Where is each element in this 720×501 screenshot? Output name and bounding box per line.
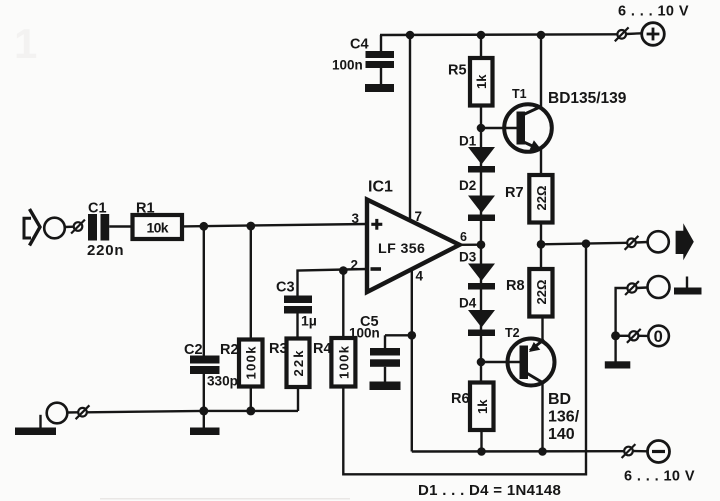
capacitor C5 100n	[349, 314, 412, 382]
capacitor C1 220n	[87, 201, 132, 260]
wire return connector stem	[616, 288, 628, 362]
svg-text:140: 140	[548, 426, 575, 443]
svg-text:100n: 100n	[349, 326, 380, 341]
node output R7/R8	[537, 240, 546, 249]
plug negative supply	[622, 444, 648, 458]
svg-text:1k: 1k	[474, 74, 489, 89]
transistor T1 BD135/139	[504, 87, 627, 152]
svg-text:R2: R2	[220, 342, 239, 358]
svg-text:D2: D2	[459, 178, 476, 193]
plug 0V	[616, 329, 649, 343]
svg-text:22k: 22k	[291, 350, 306, 377]
lower input connector circle	[47, 403, 68, 424]
resistor R6 1k	[451, 383, 494, 452]
plug return	[625, 281, 647, 295]
svg-text:C3: C3	[276, 280, 295, 296]
svg-text:R8: R8	[506, 278, 525, 294]
svg-text:0: 0	[654, 328, 663, 346]
plug lower input	[76, 405, 90, 419]
op-amp IC1 LF356	[351, 179, 468, 293]
svg-text:136/: 136/	[548, 409, 580, 426]
plug output	[625, 236, 648, 250]
svg-text:2: 2	[351, 258, 359, 273]
svg-text:6: 6	[460, 230, 467, 244]
svg-text:220n: 220n	[87, 242, 124, 259]
wire T1 base	[481, 127, 518, 129]
node T2 collector / rail	[538, 447, 547, 456]
wire input to op-amp	[182, 224, 367, 226]
svg-text:10k: 10k	[147, 220, 169, 236]
ground at return connector	[674, 277, 702, 295]
ground at 0V stem	[605, 361, 631, 368]
wire pin 2	[298, 269, 368, 296]
resistor R7 22ohm	[505, 175, 553, 244]
svg-text:C2: C2	[184, 342, 203, 358]
resistor R5 1k	[448, 35, 493, 128]
wire negative rail	[412, 450, 624, 453]
bottom scan smudge	[100, 498, 350, 500]
svg-text:22Ω: 22Ω	[534, 280, 549, 305]
svg-text:D3: D3	[459, 250, 477, 265]
svg-text:BD135/139: BD135/139	[548, 90, 627, 107]
svg-text:1µ: 1µ	[301, 313, 317, 329]
svg-text:R4: R4	[313, 341, 332, 357]
input connector circle	[44, 218, 65, 239]
node pin 6 output junction	[477, 240, 486, 249]
capacitor C2 330p	[184, 226, 238, 411]
node T2 base junction	[477, 358, 486, 367]
svg-text:R3: R3	[269, 341, 288, 357]
plug input	[71, 220, 85, 234]
input signal arrow symbol	[24, 209, 40, 246]
diode D4	[459, 296, 495, 337]
node pin7 / rail	[406, 31, 415, 40]
node C2 tap	[199, 222, 208, 231]
wire output	[541, 243, 627, 245]
svg-text:7: 7	[415, 209, 423, 224]
wire	[67, 411, 78, 414]
node C5 tap	[408, 331, 417, 340]
svg-text:100n: 100n	[332, 58, 363, 73]
resistor R3 22k	[269, 339, 310, 412]
negative supply terminal	[624, 441, 695, 485]
svg-text:6 . . . 10 V: 6 . . . 10 V	[624, 469, 695, 485]
resistor R1 10k	[133, 201, 183, 240]
resistor R8 22ohm	[506, 244, 553, 316]
svg-text:1k: 1k	[475, 399, 490, 414]
0V connector circle	[648, 326, 669, 347]
svg-text:T1: T1	[512, 87, 527, 101]
svg-text:100k: 100k	[336, 345, 351, 379]
svg-text:R6: R6	[451, 391, 470, 407]
svg-text:BD: BD	[548, 391, 571, 408]
svg-text:C1: C1	[88, 201, 107, 217]
wire T2 base	[481, 361, 521, 363]
output arrow symbol	[676, 223, 694, 260]
wire T2 collector	[541, 383, 543, 452]
svg-text:6 . . . 10 V: 6 . . . 10 V	[618, 4, 689, 20]
positive supply terminal	[618, 4, 689, 46]
svg-text:C4: C4	[350, 37, 369, 53]
ground at lower input	[15, 415, 56, 435]
svg-text:D1 . . . D4 = 1N4148: D1 . . . D4 = 1N4148	[418, 482, 561, 499]
svg-text:D1: D1	[459, 134, 477, 149]
wire T2 emitter	[541, 317, 543, 343]
wire ground bus	[87, 411, 298, 412]
node T1 collector / rail	[537, 31, 546, 40]
svg-text:22Ω: 22Ω	[534, 186, 549, 211]
svg-text:T2: T2	[505, 326, 520, 340]
ground at C2	[190, 411, 220, 435]
node C2 ground	[199, 406, 208, 415]
svg-text:LF 356: LF 356	[378, 241, 425, 257]
return connector circle	[648, 276, 670, 298]
wire positive supply rail	[380, 33, 617, 36]
svg-text:D4: D4	[459, 296, 477, 311]
svg-text:100k: 100k	[244, 346, 259, 380]
ground at C5	[370, 382, 401, 391]
plug positive supply	[615, 27, 642, 41]
svg-text:4: 4	[416, 269, 424, 284]
diode D1	[459, 134, 495, 173]
capacitor C3 1u	[276, 280, 317, 339]
svg-text:330p: 330p	[207, 374, 238, 389]
svg-text:3: 3	[352, 211, 360, 226]
wire T1 emitter	[540, 150, 542, 176]
capacitor C4	[332, 35, 394, 85]
wire pin 4	[411, 269, 413, 452]
resistor R4 100k	[313, 271, 355, 387]
svg-text:R1: R1	[136, 201, 155, 217]
node R6 / rail	[477, 447, 486, 456]
svg-text:IC1: IC1	[368, 179, 393, 196]
resistor R2 100k	[220, 226, 263, 411]
diode D3	[459, 250, 495, 290]
diode chain wire	[480, 128, 482, 383]
output connector circle	[648, 231, 669, 252]
wire pin 7 to rail	[409, 35, 411, 223]
wire T1 collector	[540, 35, 542, 108]
transistor T2 BD136/140	[505, 326, 580, 443]
node feedback tap	[582, 239, 591, 248]
wire	[65, 225, 74, 228]
svg-text:R5: R5	[448, 63, 467, 79]
svg-text:R7: R7	[505, 185, 524, 201]
svg-text:1: 1	[14, 20, 37, 67]
node pin 2 / R4	[339, 266, 348, 275]
ground at C4	[365, 84, 394, 92]
node R5 / rail	[477, 31, 486, 40]
node R2 ground	[246, 406, 255, 415]
wire pin 6	[459, 243, 481, 246]
diode D2	[459, 178, 495, 221]
wire feedback	[343, 244, 586, 475]
node T1 base junction	[477, 124, 486, 133]
node R2 tap	[246, 222, 255, 231]
node 0V stem	[611, 331, 620, 340]
